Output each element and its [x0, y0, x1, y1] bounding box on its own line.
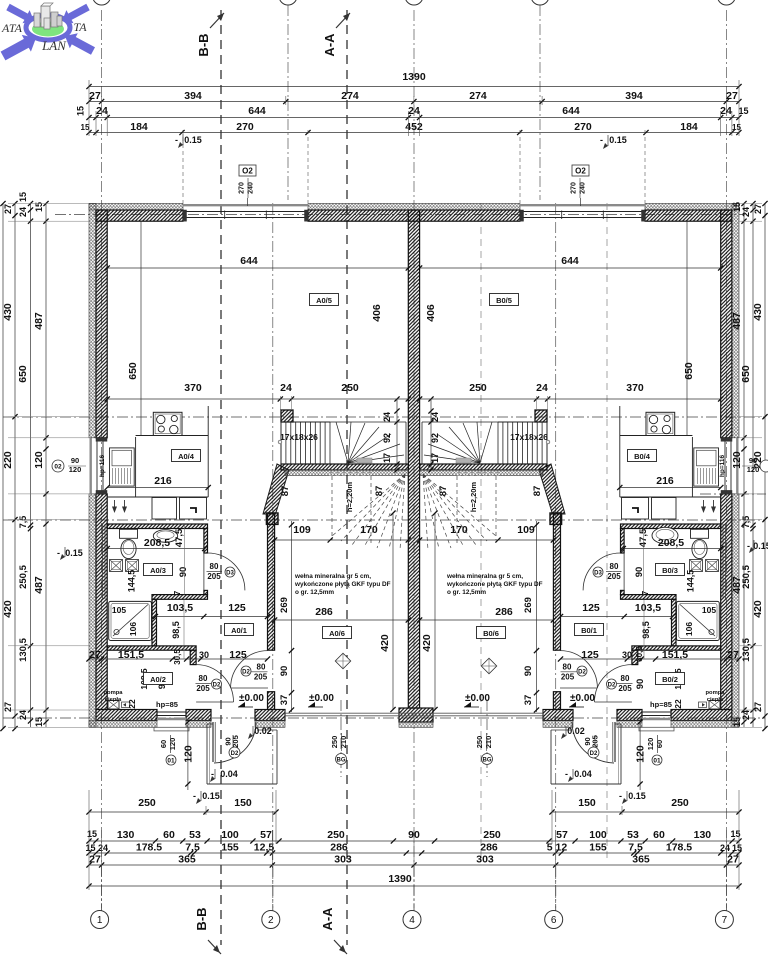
svg-text:24: 24: [720, 105, 732, 117]
dim 216 left: [107, 487, 208, 489]
bathroom right wall upper: [204, 529, 208, 554]
shower right: [677, 601, 720, 640]
room A0/2 top wall: [107, 646, 196, 650]
grid bubble 1: [101, 866, 103, 911]
svg-text:0.15: 0.15: [65, 548, 83, 558]
top dim row 15/24/644: [89, 117, 739, 119]
svg-text:24: 24: [536, 382, 548, 394]
svg-text:144,5: 144,5: [686, 570, 696, 593]
O2 label right: [572, 165, 589, 176]
door D3 bath right: [583, 553, 620, 590]
stairs left unit: [278, 422, 406, 550]
dim 286 A0/6 left: [275, 619, 409, 621]
svg-text:53: 53: [627, 829, 639, 841]
svg-text:487: 487: [731, 312, 743, 330]
svg-text:h=2,20m: h=2,20m: [345, 482, 354, 513]
svg-text:103,5: 103,5: [167, 602, 193, 614]
svg-text:-: -: [565, 769, 568, 779]
svg-text:394: 394: [625, 90, 643, 102]
svg-text:15: 15: [738, 106, 748, 116]
svg-text:184: 184: [680, 121, 698, 133]
svg-text:-: -: [600, 135, 603, 145]
svg-text:0.15: 0.15: [202, 791, 220, 801]
dim 370/24/250 left: [107, 398, 408, 400]
svg-text:210: 210: [339, 736, 348, 749]
svg-text:420: 420: [2, 600, 14, 618]
window O2 top right: [520, 204, 645, 206]
svg-text:17x18x26: 17x18x26: [510, 432, 548, 442]
svg-text:wełna mineralna gr 5 cm,: wełna mineralna gr 5 cm,: [294, 573, 371, 580]
shower side wall: [152, 599, 157, 646]
svg-text:BG: BG: [483, 758, 492, 764]
svg-text:250: 250: [327, 829, 345, 841]
svg-text:80: 80: [621, 674, 630, 683]
vdim 269/90/37 left: [291, 521, 293, 712]
svg-text:130,5: 130,5: [741, 637, 752, 661]
svg-text:106: 106: [684, 622, 694, 636]
top wall insulation: [89, 204, 183, 211]
top dim row 27/394/274: [89, 101, 739, 103]
section line B-B: [220, 10, 222, 945]
svg-text:120: 120: [69, 465, 82, 474]
svg-text:151,5: 151,5: [118, 649, 144, 661]
stair bottom wall band: [281, 464, 408, 470]
svg-text:250: 250: [138, 797, 156, 809]
door label D2 hall-A06 left: [241, 666, 251, 676]
svg-text:125: 125: [229, 649, 247, 661]
svg-text:216: 216: [656, 475, 674, 487]
svg-text:87: 87: [438, 486, 449, 497]
kitchen lower cabinets: [152, 498, 177, 520]
svg-text:120: 120: [731, 451, 743, 469]
grid bubble 4: [413, 866, 415, 911]
svg-text:24: 24: [408, 105, 420, 117]
washer symbols right: [706, 560, 719, 572]
svg-text:27: 27: [3, 204, 13, 214]
left wall insulation: [89, 204, 96, 438]
door D2 A0/6 right: [560, 651, 597, 688]
svg-text:150: 150: [578, 797, 596, 809]
door D2 A0/2 left: [196, 665, 233, 702]
svg-text:125: 125: [228, 602, 246, 614]
svg-text:394: 394: [184, 90, 202, 102]
svg-text:105: 105: [702, 605, 716, 615]
svg-text:406: 406: [425, 304, 437, 322]
washbasin left: [153, 530, 177, 543]
svg-text:24: 24: [741, 207, 751, 217]
svg-text:150: 150: [234, 797, 252, 809]
svg-text:22: 22: [127, 699, 137, 709]
grid bubble top: [93, 0, 111, 5]
svg-text:A0/3: A0/3: [150, 566, 166, 575]
bottom extension lines: [88, 790, 90, 890]
A0/6 left wall: [268, 513, 275, 650]
svg-text:A-A: A-A: [322, 33, 337, 57]
central wall: [408, 210, 419, 708]
svg-text:15: 15: [34, 717, 44, 727]
axis kitchen: [3, 416, 765, 418]
svg-text:7: 7: [173, 590, 182, 595]
svg-text:487: 487: [33, 312, 45, 330]
axis top wall: [55, 214, 745, 216]
svg-text:pompa: pompa: [705, 690, 725, 696]
svg-text:30,5: 30,5: [173, 649, 182, 665]
dim row A0/2 left: [89, 658, 268, 660]
svg-text:92: 92: [430, 433, 440, 443]
svg-text:O2: O2: [242, 167, 253, 176]
room label A0/6: [323, 627, 352, 639]
svg-text:644: 644: [561, 255, 579, 267]
svg-text:170: 170: [360, 524, 378, 536]
svg-text:250: 250: [469, 382, 487, 394]
svg-text:205: 205: [561, 673, 575, 682]
room label B0/1: [575, 624, 604, 636]
svg-text:24: 24: [741, 710, 751, 720]
room label A0/1: [225, 624, 254, 636]
svg-text:205: 205: [618, 684, 632, 693]
svg-text:17: 17: [382, 453, 392, 463]
svg-text:15: 15: [732, 123, 741, 132]
grid line 6 upper stub: [539, 5, 541, 200]
svg-text:130: 130: [694, 829, 712, 841]
svg-text:24: 24: [18, 207, 28, 217]
dim 644 living left: [107, 267, 408, 269]
grid line 2: [272, 203, 274, 908]
svg-text:178.5: 178.5: [666, 842, 692, 854]
room label A0/4: [172, 450, 201, 462]
svg-text:87: 87: [532, 486, 543, 497]
svg-text:109: 109: [517, 524, 535, 536]
door label D2 hall-A06 right: [577, 666, 587, 676]
svg-text:D2: D2: [590, 751, 598, 757]
svg-text:130: 130: [117, 829, 135, 841]
room label A0/2: [144, 673, 173, 685]
window 01 bottom right: [642, 718, 671, 720]
svg-text:120: 120: [33, 451, 45, 469]
svg-text:7,5: 7,5: [18, 516, 28, 529]
kitchen counters: [136, 435, 209, 437]
vdim 420 right: [434, 513, 436, 709]
svg-text:27: 27: [727, 854, 739, 866]
window left wall 90x120: [89, 438, 91, 494]
bottom wall insulation segments: [89, 721, 157, 728]
svg-text:27: 27: [753, 702, 763, 712]
O2 label left: [239, 165, 256, 176]
svg-text:120: 120: [635, 745, 647, 763]
svg-text:106: 106: [128, 622, 138, 636]
grid bubble 6: [555, 866, 557, 911]
svg-text:±0.00: ±0.00: [309, 693, 334, 704]
svg-text:12,5: 12,5: [254, 842, 275, 854]
svg-text:22: 22: [673, 699, 683, 709]
left window label: [52, 460, 64, 472]
right wall insulation: [732, 204, 739, 438]
porch dim 120 right: [639, 718, 641, 790]
svg-text:hp=116: hp=116: [99, 455, 106, 478]
svg-text:30,5: 30,5: [635, 646, 644, 662]
svg-text:15: 15: [85, 843, 95, 853]
stair dim col right: [430, 399, 432, 470]
svg-text:B-B: B-B: [196, 33, 211, 56]
svg-text:208,5: 208,5: [658, 537, 684, 549]
svg-text:37: 37: [279, 695, 290, 706]
axis bathroom: [3, 519, 765, 521]
top vertical extension lines: [88, 80, 90, 136]
svg-text:286: 286: [480, 842, 498, 854]
svg-text:270: 270: [239, 182, 246, 194]
svg-text:D3: D3: [226, 571, 234, 577]
svg-text:250: 250: [483, 829, 501, 841]
svg-text:105: 105: [112, 605, 126, 615]
svg-text:17x18x26: 17x18x26: [280, 432, 318, 442]
svg-text:30: 30: [199, 650, 209, 660]
kitchen sink right: [694, 448, 719, 486]
grid bubble 2: [272, 866, 274, 911]
svg-text:1: 1: [97, 915, 103, 926]
central wall foot: [399, 708, 433, 722]
svg-text:±0.00: ±0.00: [465, 693, 490, 704]
svg-text:7,5: 7,5: [628, 842, 643, 854]
svg-text:103,5: 103,5: [635, 602, 661, 614]
svg-text:452: 452: [405, 121, 423, 133]
dim 644 living right: [420, 267, 721, 269]
svg-text:B0/2: B0/2: [662, 675, 678, 684]
bathroom plumbing wall lines: [102, 524, 104, 599]
shower left: [109, 601, 152, 640]
svg-text:A0/6: A0/6: [329, 629, 345, 638]
svg-text:-: -: [57, 548, 60, 558]
room label B0/2: [656, 673, 685, 685]
bottom dim row A: [89, 840, 739, 842]
svg-text:0.15: 0.15: [753, 541, 768, 551]
svg-text:269: 269: [279, 597, 290, 613]
svg-text:274: 274: [469, 90, 487, 102]
axis bottom wall: [3, 717, 765, 719]
svg-text:303: 303: [476, 854, 494, 866]
svg-text:178.5: 178.5: [136, 842, 162, 854]
svg-text:hp=85: hp=85: [156, 700, 178, 709]
logo ATALAN: [1, 3, 95, 60]
svg-text:144,5: 144,5: [127, 570, 137, 593]
svg-text:406: 406: [371, 304, 383, 322]
dim 109/170 right: [420, 539, 554, 541]
svg-text:B0/4: B0/4: [634, 452, 651, 461]
room label A0/3: [144, 564, 173, 576]
svg-text:250,5: 250,5: [18, 564, 29, 588]
dim 208.5 right: [623, 548, 721, 550]
svg-text:30: 30: [622, 650, 632, 660]
A0/6 left wall stub: [268, 692, 275, 710]
right wall brick: [721, 210, 732, 438]
window 01 bottom left 60x120: [157, 718, 186, 720]
svg-text:420: 420: [379, 634, 391, 652]
bottom porch dims: [89, 811, 276, 813]
washer symbols left: [110, 560, 123, 572]
floor drain A0/6 left: [335, 653, 351, 669]
svg-text:B0/3: B0/3: [662, 566, 678, 575]
svg-text:0.04: 0.04: [220, 769, 238, 779]
svg-text:87: 87: [280, 486, 291, 497]
svg-text:80: 80: [210, 562, 219, 571]
right col horizontals: [739, 203, 762, 205]
svg-text:D2: D2: [578, 670, 586, 676]
room label B0/5: [490, 294, 519, 306]
svg-text:0.15: 0.15: [628, 791, 646, 801]
svg-text:1390: 1390: [388, 873, 412, 885]
svg-text:60: 60: [159, 740, 168, 748]
svg-text:D2: D2: [608, 683, 616, 689]
svg-text:ciepła: ciepła: [105, 697, 122, 703]
svg-text:250: 250: [671, 797, 689, 809]
svg-text:D2: D2: [231, 751, 239, 757]
svg-text:208,5: 208,5: [144, 537, 170, 549]
room label B0/6: [477, 627, 506, 639]
bathroom right wall lower: [204, 590, 208, 594]
svg-text:240: 240: [248, 182, 255, 194]
svg-text:365: 365: [178, 854, 196, 866]
section mirror dashes: [480, 203, 482, 860]
svg-text:240: 240: [580, 182, 587, 194]
svg-text:420: 420: [752, 600, 764, 618]
svg-text:269: 269: [523, 597, 534, 613]
svg-text:15: 15: [81, 123, 90, 132]
bottom wall brick segments: [96, 710, 157, 721]
svg-text:98,5: 98,5: [171, 621, 181, 639]
top wall brick: [96, 210, 183, 221]
dim 208.5 left: [107, 548, 205, 550]
svg-text:250: 250: [475, 736, 484, 749]
window right wall 90x120: [736, 438, 738, 494]
svg-text:170: 170: [450, 524, 468, 536]
svg-text:0.02: 0.02: [254, 726, 272, 736]
stove: [646, 412, 675, 435]
svg-text:24: 24: [720, 843, 730, 853]
right dim col lines: [764, 204, 766, 729]
svg-text:7: 7: [722, 915, 728, 926]
svg-text:15: 15: [76, 106, 86, 116]
svg-text:24: 24: [430, 412, 440, 422]
svg-text:1390: 1390: [402, 71, 426, 83]
svg-text:27: 27: [3, 702, 13, 712]
porch left: [207, 723, 213, 725]
svg-text:A-A: A-A: [320, 907, 335, 931]
svg-text:15: 15: [732, 843, 742, 853]
svg-text:27: 27: [753, 204, 763, 214]
svg-text:92: 92: [382, 433, 392, 443]
svg-text:4: 4: [409, 915, 415, 926]
grid bubble top: [531, 0, 549, 5]
svg-text:57: 57: [260, 829, 272, 841]
svg-text:0.15: 0.15: [609, 135, 627, 145]
svg-text:120: 120: [168, 738, 177, 751]
svg-text:o gr. 12,5mm: o gr. 12,5mm: [295, 589, 334, 596]
svg-text:370: 370: [184, 382, 202, 394]
dim 370/24/250 right: [420, 398, 721, 400]
svg-text:5 12: 5 12: [547, 842, 568, 854]
dim 216 right: [620, 487, 721, 489]
svg-text:184: 184: [130, 121, 148, 133]
svg-text:250,5: 250,5: [741, 564, 752, 588]
bottom dim row C: [89, 864, 739, 866]
svg-text:0.15: 0.15: [184, 135, 202, 145]
svg-text:6: 6: [551, 915, 557, 926]
svg-text:80: 80: [199, 674, 208, 683]
kitchen zone line right: [686, 221, 688, 435]
svg-text:0.02: 0.02: [567, 726, 585, 736]
svg-text:15: 15: [732, 717, 742, 727]
svg-text:D2: D2: [213, 683, 221, 689]
vent arrows: [114, 500, 116, 509]
svg-text:wykończone płytą GKF typu DF: wykończone płytą GKF typu DF: [446, 581, 543, 588]
porch dim 120 left: [187, 718, 189, 790]
door D2 A0/6 left: [231, 651, 268, 688]
left dim col lines: [2, 204, 4, 729]
svg-text:ATA: ATA: [1, 21, 23, 35]
stairs right unit: [422, 422, 550, 550]
svg-text:15: 15: [87, 829, 97, 839]
svg-text:487: 487: [33, 576, 45, 594]
svg-text:155: 155: [589, 842, 607, 854]
svg-text:27: 27: [89, 90, 101, 102]
bathroom top wall: [107, 524, 207, 529]
heat pump left: [108, 701, 119, 710]
svg-text:h=2,20m: h=2,20m: [469, 482, 478, 513]
svg-text:125: 125: [581, 649, 599, 661]
svg-text:644: 644: [240, 255, 258, 267]
svg-text:24: 24: [96, 105, 108, 117]
svg-text:-: -: [747, 541, 750, 551]
kitchen zone line left: [140, 221, 142, 435]
svg-text:90: 90: [523, 666, 534, 677]
svg-text:120: 120: [747, 465, 760, 474]
svg-text:53: 53: [189, 829, 201, 841]
svg-text:644: 644: [248, 105, 266, 117]
kitchen sink left: [110, 448, 135, 486]
svg-text:420: 420: [421, 634, 433, 652]
svg-text:pompa: pompa: [103, 690, 123, 696]
stove: [153, 412, 182, 435]
svg-text:02: 02: [54, 464, 62, 471]
grid line 7: [725, 10, 727, 908]
svg-text:80: 80: [257, 663, 266, 672]
dim 286 A0/6 right: [420, 619, 554, 621]
svg-text:155: 155: [221, 842, 239, 854]
svg-text:D3: D3: [594, 571, 602, 577]
grid bubble top: [717, 0, 735, 5]
svg-text:A0/4: A0/4: [178, 452, 195, 461]
svg-text:286: 286: [315, 606, 333, 618]
svg-text:90: 90: [279, 666, 290, 677]
svg-text:2: 2: [268, 915, 274, 926]
svg-text:-: -: [175, 135, 178, 145]
grid line 2 upper stub: [287, 5, 289, 200]
svg-text:17: 17: [430, 453, 440, 463]
svg-text:109: 109: [293, 524, 311, 536]
room A0/2 right wall: [190, 650, 196, 664]
left col horizontals: [8, 203, 89, 205]
door D2 A0/2 right: [595, 665, 632, 702]
svg-text:A0/1: A0/1: [231, 626, 247, 635]
stair diagonal wall: [263, 464, 289, 514]
dim row A0/2 right: [561, 658, 740, 660]
svg-text:205: 205: [196, 684, 210, 693]
left wall brick: [96, 210, 107, 438]
svg-text:D2: D2: [242, 670, 250, 676]
svg-text:365: 365: [632, 854, 650, 866]
svg-text:650: 650: [683, 362, 695, 380]
svg-text:01: 01: [653, 758, 661, 765]
svg-text:wykończone płytą GKF typu DF: wykończone płytą GKF typu DF: [294, 581, 391, 588]
